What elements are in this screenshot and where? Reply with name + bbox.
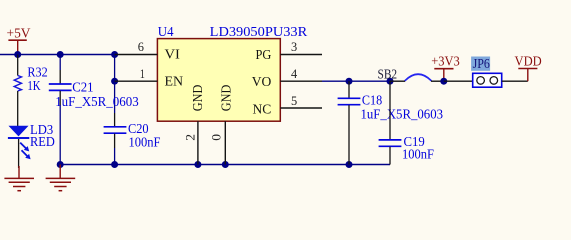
node junction C18 top bbox=[346, 78, 353, 85]
node junction +5V/R32 bbox=[14, 51, 21, 58]
svg-text:0: 0 bbox=[210, 134, 224, 141]
connector JP6 bbox=[471, 56, 502, 87]
svg-text:VI: VI bbox=[165, 48, 181, 63]
solder bridge SB2 bbox=[378, 66, 444, 81]
wire C20 column lower bbox=[114, 148, 116, 165]
svg-text:C20: C20 bbox=[128, 121, 149, 136]
svg-text:GND: GND bbox=[191, 85, 206, 112]
pin 4 VO bbox=[252, 67, 322, 90]
svg-text:1: 1 bbox=[140, 67, 145, 81]
node junction C21 bbox=[57, 51, 64, 58]
LED LD3 bbox=[8, 122, 55, 168]
svg-text:GND: GND bbox=[220, 85, 235, 112]
svg-text:+5V: +5V bbox=[7, 26, 31, 41]
pin 5 NC bbox=[253, 94, 323, 117]
node junction C18 bottom bbox=[346, 161, 353, 168]
pin 2 GND bbox=[183, 85, 205, 165]
svg-text:100nF: 100nF bbox=[129, 135, 161, 150]
wire C21 column upper bbox=[59, 55, 61, 71]
svg-text:RED: RED bbox=[30, 134, 55, 149]
svg-text:U4: U4 bbox=[158, 24, 174, 39]
svg-text:VO: VO bbox=[252, 75, 272, 90]
pin 1 EN bbox=[111, 67, 183, 90]
ground GND (rail) bbox=[46, 165, 76, 191]
wire main top rail bbox=[0, 54, 115, 56]
svg-text:5: 5 bbox=[291, 94, 297, 108]
wire C20/EN column vertical bbox=[114, 55, 116, 114]
resistor R32 bbox=[14, 55, 47, 127]
node junction C20/EN bbox=[111, 51, 118, 58]
node junction +3V3 bbox=[440, 78, 447, 85]
wire bottom rail bbox=[60, 164, 390, 166]
capacitor C18 bbox=[338, 81, 444, 164]
svg-text:1K: 1K bbox=[27, 78, 41, 93]
capacitor C20 bbox=[104, 113, 161, 150]
svg-text:2: 2 bbox=[183, 134, 197, 141]
svg-text:100nF: 100nF bbox=[402, 147, 434, 162]
svg-text:SB2: SB2 bbox=[378, 66, 398, 81]
power port +5V bbox=[7, 26, 31, 55]
pin 0 GND bbox=[210, 85, 235, 165]
pin 3 PG bbox=[256, 40, 323, 63]
wire VO to SB2 bbox=[322, 80, 390, 82]
node junction GND pin0 bbox=[222, 161, 229, 168]
svg-text:VDD: VDD bbox=[515, 53, 542, 68]
capacitor C19 bbox=[379, 81, 434, 164]
wire C21 column lower bbox=[59, 105, 61, 165]
svg-text:LD39050PU33R: LD39050PU33R bbox=[210, 24, 308, 39]
wire +3V3 to JP6 bbox=[444, 80, 473, 82]
svg-text:NC: NC bbox=[253, 102, 272, 117]
power port +3V3 bbox=[431, 53, 460, 81]
ground GND (LED) bbox=[4, 166, 34, 191]
svg-text:4: 4 bbox=[291, 67, 297, 81]
node junction gnd/C21 bbox=[57, 161, 64, 168]
svg-text:PG: PG bbox=[256, 48, 272, 63]
svg-text:6: 6 bbox=[138, 40, 144, 54]
svg-text:3: 3 bbox=[291, 40, 297, 54]
svg-text:JP6: JP6 bbox=[473, 56, 491, 71]
capacitor C21 bbox=[49, 70, 139, 109]
wire JP6 to VDD bbox=[502, 80, 528, 82]
node junction C19/SB2 bbox=[387, 78, 394, 85]
pin 6 VI bbox=[115, 40, 181, 63]
op-amp U4 body (regulator LD39050PU33R) bbox=[157, 24, 307, 121]
svg-text:1uF_X5R_0603: 1uF_X5R_0603 bbox=[361, 106, 444, 121]
node junction C20 bottom bbox=[111, 161, 118, 168]
svg-text:EN: EN bbox=[165, 75, 184, 90]
svg-text:+3V3: +3V3 bbox=[431, 53, 460, 68]
svg-text:C21: C21 bbox=[72, 79, 93, 94]
power port VDD bbox=[515, 53, 542, 81]
node junction GND pin2 bbox=[194, 161, 201, 168]
svg-text:1uF_X5R_0603: 1uF_X5R_0603 bbox=[55, 94, 139, 109]
